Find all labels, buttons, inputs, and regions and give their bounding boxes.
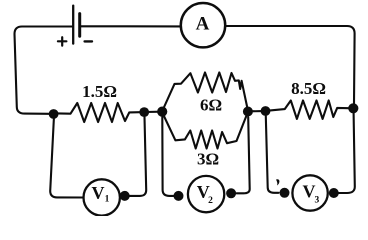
scan speck (comma artifact) near V3 bbox=[276, 179, 279, 185]
battery label &#8722; bbox=[85, 40, 92, 42]
voltmeter V3 right terminal dot bbox=[329, 188, 339, 198]
voltmeter V2 (circle) bbox=[188, 176, 224, 212]
voltmeter V1 right terminal dot bbox=[120, 191, 130, 201]
svg-text:3Ω: 3Ω bbox=[197, 150, 219, 169]
svg-text:6Ω: 6Ω bbox=[200, 96, 222, 115]
wire: battery to ammeter bbox=[81, 25, 181, 27]
resistor R4 8.5&#937; (zigzag) bbox=[269, 101, 349, 119]
node B2 junction dot (fork of parallel pair) bbox=[157, 107, 167, 117]
battery B1 positive plate (long) bbox=[72, 6, 74, 44]
node C1 junction dot (right fork of parallel pair) bbox=[243, 107, 253, 117]
voltmeter V3 (circle) bbox=[292, 175, 327, 210]
wire: node B2 down to voltmeter V2 left terminal bbox=[162, 117, 174, 196]
voltmeter V1 (circle) bbox=[84, 179, 120, 215]
battery B1 negative plate (short) bbox=[78, 14, 81, 37]
node B1 junction dot (right of R1) bbox=[139, 107, 149, 117]
ammeter A (circle) bbox=[181, 3, 225, 47]
battery label + bbox=[58, 37, 67, 45]
node D junction dot (on right rail) bbox=[348, 103, 358, 113]
wire: node C2 down to voltmeter V3 left terminal bbox=[266, 116, 279, 193]
voltmeter V2 right terminal dot bbox=[226, 188, 236, 198]
resistor R1 1.5&#937; (zigzag) bbox=[58, 103, 140, 122]
svg-text:V: V bbox=[92, 183, 105, 203]
voltmeter V3 left terminal dot bbox=[280, 188, 290, 198]
resistor R3 3&#937; (bottom branch zigzag) bbox=[163, 113, 248, 149]
wire: node B1 to node B2 bbox=[146, 111, 160, 113]
node A junction dot bbox=[49, 109, 59, 119]
wire: top-left rail from battery + plate around left side down to node A bbox=[15, 27, 73, 114]
svg-text:3: 3 bbox=[315, 196, 320, 206]
svg-text:A: A bbox=[196, 13, 210, 34]
wire: node A down to voltmeter V1 left terminal bbox=[50, 118, 83, 198]
wire: node B1 down to voltmeter V1 right terminal bbox=[129, 117, 147, 196]
wire: right rail from node D down and around to voltmeter V3 right terminal bbox=[339, 113, 355, 193]
node C2 junction dot bbox=[261, 106, 271, 116]
svg-text:1: 1 bbox=[105, 195, 110, 205]
svg-text:2: 2 bbox=[208, 196, 213, 206]
voltmeter V2 left terminal dot bbox=[174, 191, 184, 201]
resistor R2 6&#937; (top branch zigzag) bbox=[163, 73, 248, 111]
wire: node C1 to node C2 bbox=[250, 110, 263, 112]
wire: node C1 down to voltmeter V2 right terminal bbox=[237, 117, 250, 193]
wire: ammeter to top-right corner and right rail down to node D bbox=[225, 26, 354, 104]
svg-text:1.5Ω: 1.5Ω bbox=[82, 82, 117, 101]
svg-text:8.5Ω: 8.5Ω bbox=[291, 79, 326, 98]
